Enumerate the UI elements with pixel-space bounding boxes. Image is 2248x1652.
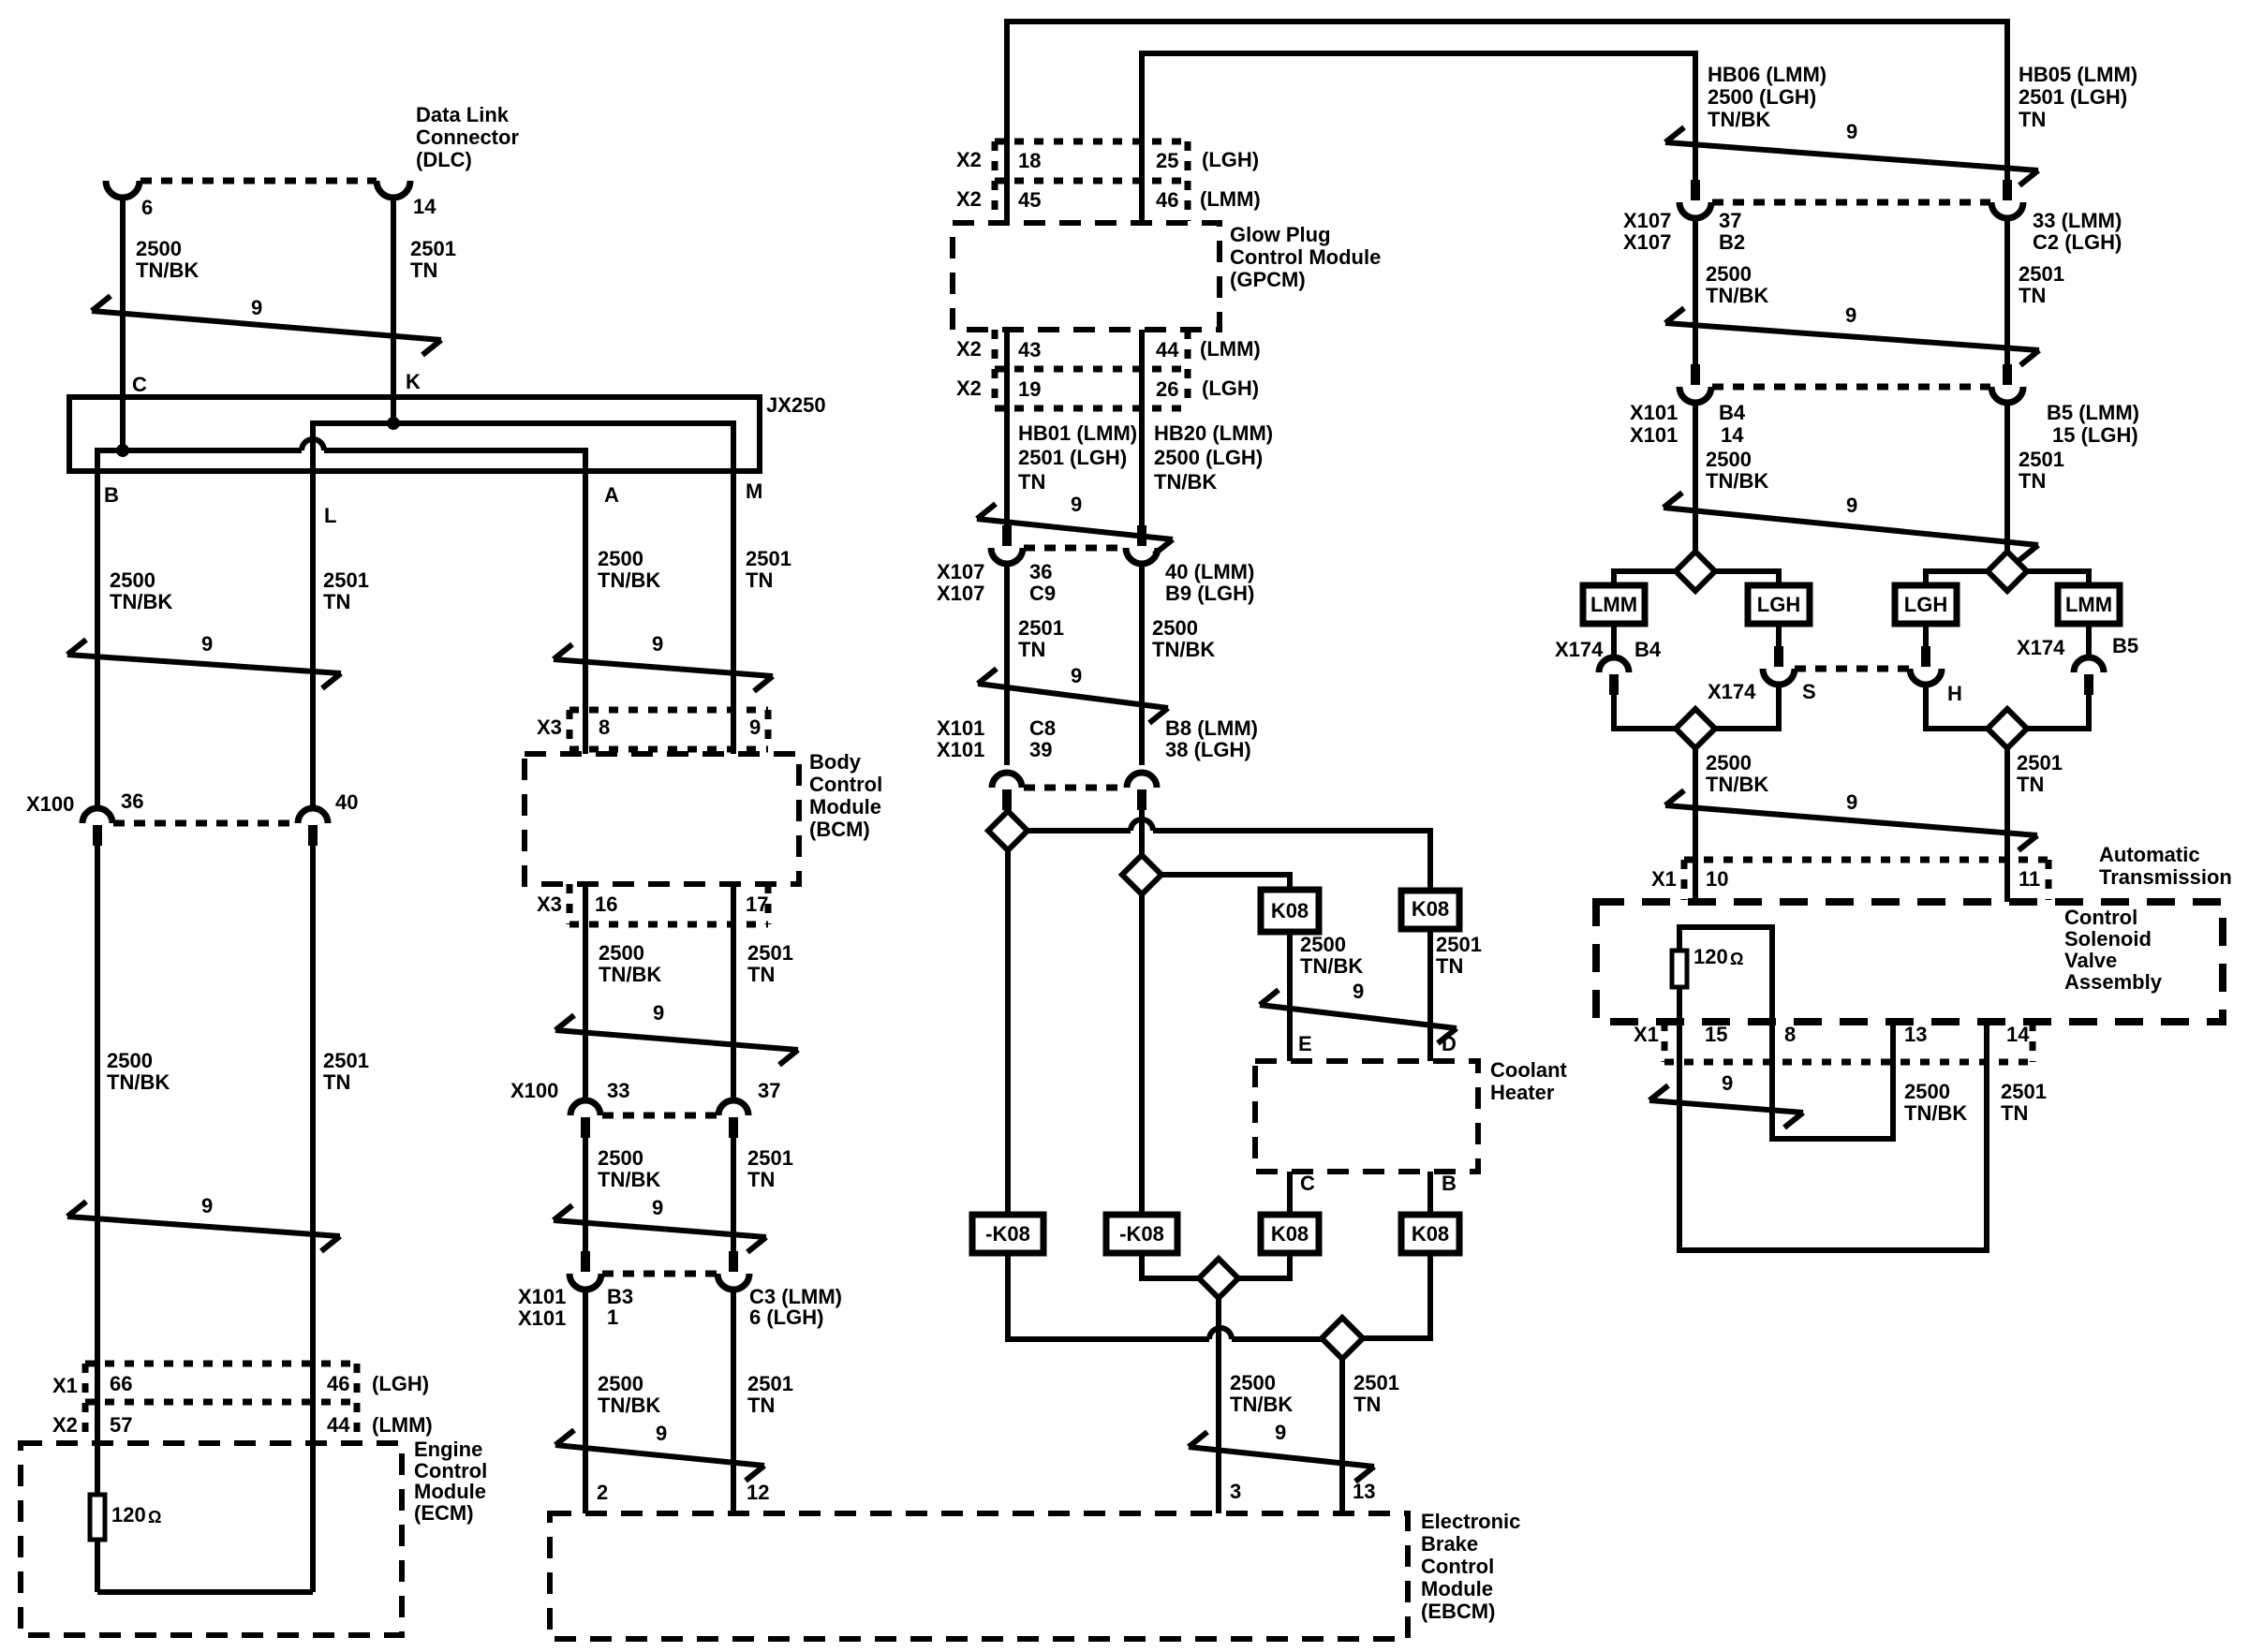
svg-text:2501: 2501: [410, 237, 456, 260]
svg-text:46: 46: [1156, 188, 1178, 212]
svg-text:36: 36: [1029, 560, 1052, 583]
svg-text:1: 1: [607, 1305, 618, 1329]
svg-text:TN: TN: [1353, 1393, 1381, 1416]
svg-text:Transmission: Transmission: [2099, 865, 2232, 889]
svg-text:13: 13: [1904, 1023, 1927, 1046]
svg-text:6 (LGH): 6 (LGH): [749, 1305, 823, 1329]
svg-text:X101: X101: [1630, 423, 1678, 447]
svg-text:HB01 (LMM): HB01 (LMM): [1018, 421, 1137, 445]
svg-text:(LMM): (LMM): [1200, 187, 1261, 211]
svg-text:LMM: LMM: [1590, 593, 1637, 616]
svg-text:9: 9: [1071, 664, 1082, 687]
svg-text:2500: 2500: [1706, 262, 1752, 286]
svg-text:B2: B2: [1719, 230, 1745, 254]
svg-text:HB20 (LMM): HB20 (LMM): [1154, 421, 1273, 445]
svg-text:TN/BK: TN/BK: [1706, 773, 1768, 796]
svg-text:9: 9: [1845, 303, 1856, 327]
svg-text:26: 26: [1156, 377, 1178, 401]
svg-text:S: S: [1802, 680, 1816, 703]
svg-text:TN: TN: [747, 963, 775, 986]
svg-text:TN: TN: [323, 1070, 350, 1094]
svg-text:Control Module: Control Module: [1230, 245, 1381, 269]
svg-text:-K08: -K08: [1119, 1222, 1164, 1246]
svg-text:14: 14: [1721, 423, 1744, 447]
svg-text:2500 (LGH): 2500 (LGH): [1708, 85, 1816, 109]
svg-text:2501: 2501: [2019, 262, 2064, 286]
svg-text:C: C: [1300, 1172, 1315, 1195]
svg-text:B4: B4: [1719, 401, 1746, 424]
svg-text:Body: Body: [809, 750, 862, 774]
svg-text:43: 43: [1018, 338, 1041, 361]
svg-text:K08: K08: [1271, 899, 1309, 922]
svg-text:TN/BK: TN/BK: [1230, 1393, 1293, 1416]
svg-text:C: C: [132, 373, 147, 396]
svg-text:TN/BK: TN/BK: [599, 963, 661, 986]
svg-text:2500: 2500: [1706, 751, 1752, 774]
svg-text:2500: 2500: [1152, 616, 1198, 640]
svg-text:X101: X101: [937, 738, 984, 761]
svg-text:2501 (LGH): 2501 (LGH): [1018, 446, 1127, 469]
svg-text:13: 13: [1353, 1480, 1375, 1503]
svg-text:12: 12: [747, 1481, 769, 1504]
svg-text:B4: B4: [1634, 638, 1662, 661]
svg-text:Brake: Brake: [1421, 1532, 1478, 1556]
svg-text:2501: 2501: [2017, 751, 2063, 774]
svg-text:TN/BK: TN/BK: [598, 1168, 660, 1191]
svg-text:-K08: -K08: [985, 1222, 1030, 1246]
svg-text:X1: X1: [1634, 1023, 1659, 1046]
svg-text:TN: TN: [323, 590, 350, 613]
svg-text:46: 46: [327, 1372, 349, 1395]
svg-text:2501: 2501: [747, 1146, 793, 1170]
svg-text:2501: 2501: [747, 1372, 793, 1395]
svg-text:15: 15: [1705, 1023, 1727, 1046]
svg-text:B: B: [1442, 1172, 1457, 1195]
svg-text:B5: B5: [2112, 634, 2138, 657]
svg-text:(ECM): (ECM): [414, 1501, 474, 1525]
svg-text:Control: Control: [1421, 1555, 1494, 1578]
svg-text:TN: TN: [1018, 638, 1045, 661]
svg-text:(BCM): (BCM): [809, 818, 870, 841]
svg-text:X2: X2: [956, 187, 982, 211]
svg-text:TN: TN: [747, 1168, 775, 1191]
svg-text:2500: 2500: [107, 1049, 153, 1072]
svg-text:X107: X107: [937, 560, 984, 583]
svg-text:X2: X2: [52, 1413, 78, 1437]
svg-text:(LGH): (LGH): [1202, 376, 1259, 400]
svg-text:TN/BK: TN/BK: [136, 258, 199, 282]
svg-text:33: 33: [607, 1079, 629, 1102]
svg-text:Connector: Connector: [416, 125, 519, 149]
svg-text:LGH: LGH: [1904, 593, 1947, 616]
svg-text:X2: X2: [956, 337, 982, 361]
svg-text:9: 9: [1722, 1071, 1733, 1095]
svg-text:9: 9: [1846, 494, 1857, 517]
svg-text:D: D: [1442, 1032, 1457, 1055]
svg-text:37: 37: [758, 1079, 780, 1102]
svg-text:Module: Module: [414, 1480, 486, 1503]
svg-text:LGH: LGH: [1757, 593, 1800, 616]
svg-text:TN/BK: TN/BK: [598, 1394, 660, 1417]
svg-text:B9 (LGH): B9 (LGH): [1165, 582, 1254, 605]
svg-text:9: 9: [1846, 790, 1857, 814]
svg-text:X100: X100: [26, 792, 74, 816]
svg-text:K08: K08: [1271, 1222, 1309, 1246]
svg-text:9: 9: [749, 715, 761, 739]
svg-text:K08: K08: [1412, 1222, 1449, 1246]
svg-text:X101: X101: [937, 716, 984, 740]
svg-text:9: 9: [1846, 120, 1857, 143]
svg-text:X107: X107: [937, 582, 984, 605]
svg-text:36: 36: [121, 789, 143, 813]
svg-text:L: L: [324, 504, 336, 527]
svg-text:TN/BK: TN/BK: [1154, 470, 1217, 494]
svg-text:44: 44: [327, 1413, 350, 1437]
svg-text:TN/BK: TN/BK: [1706, 469, 1768, 493]
svg-text:9: 9: [251, 296, 262, 319]
svg-text:Assembly: Assembly: [2064, 970, 2163, 994]
svg-text:9: 9: [1071, 493, 1082, 516]
svg-text:Engine: Engine: [414, 1438, 482, 1461]
svg-text:2501: 2501: [747, 941, 793, 965]
svg-text:Control: Control: [809, 773, 882, 796]
svg-text:40: 40: [335, 790, 358, 814]
svg-text:2500: 2500: [1230, 1371, 1276, 1394]
svg-text:8: 8: [599, 715, 610, 739]
svg-text:X1: X1: [1651, 867, 1677, 891]
svg-text:3: 3: [1230, 1480, 1241, 1503]
svg-text:2501: 2501: [1436, 933, 1482, 956]
svg-text:2500: 2500: [1706, 448, 1752, 471]
svg-text:HB05 (LMM): HB05 (LMM): [2019, 63, 2137, 86]
svg-text:Heater: Heater: [1490, 1081, 1555, 1104]
svg-text:Ω: Ω: [148, 1508, 161, 1527]
svg-text:X3: X3: [537, 715, 562, 739]
svg-text:TN: TN: [1436, 954, 1463, 978]
svg-text:JX250: JX250: [766, 393, 826, 417]
svg-text:M: M: [746, 479, 762, 503]
svg-text:C9: C9: [1029, 582, 1056, 605]
svg-text:120: 120: [1693, 945, 1728, 968]
svg-text:2: 2: [597, 1481, 608, 1504]
svg-text:X1: X1: [52, 1374, 78, 1397]
svg-text:2500: 2500: [1904, 1080, 1950, 1103]
svg-text:X101: X101: [518, 1306, 566, 1330]
svg-text:14: 14: [2006, 1023, 2030, 1046]
svg-text:2500: 2500: [598, 547, 643, 570]
svg-text:X100: X100: [510, 1079, 558, 1102]
svg-text:2501: 2501: [1353, 1371, 1399, 1394]
svg-text:2500 (LGH): 2500 (LGH): [1154, 446, 1263, 469]
svg-text:Coolant: Coolant: [1490, 1058, 1568, 1082]
svg-text:2501: 2501: [323, 568, 369, 592]
svg-text:TN: TN: [410, 258, 437, 282]
svg-text:(EBCM): (EBCM): [1421, 1600, 1495, 1623]
svg-text:Ω: Ω: [1730, 950, 1743, 968]
svg-text:X101: X101: [1630, 401, 1678, 424]
svg-text:Solenoid: Solenoid: [2064, 927, 2152, 951]
svg-text:2500: 2500: [1300, 933, 1346, 956]
svg-text:18: 18: [1018, 149, 1041, 172]
svg-text:57: 57: [110, 1413, 132, 1437]
svg-text:Data Link: Data Link: [416, 103, 510, 126]
svg-text:2501: 2501: [746, 547, 791, 570]
svg-text:44: 44: [1156, 338, 1179, 361]
svg-text:19: 19: [1018, 377, 1041, 401]
svg-text:10: 10: [1706, 867, 1728, 891]
svg-text:K: K: [406, 370, 421, 393]
svg-text:TN/BK: TN/BK: [107, 1070, 170, 1094]
svg-text:39: 39: [1029, 738, 1052, 761]
svg-text:Control: Control: [2064, 906, 2137, 929]
svg-text:(GPCM): (GPCM): [1230, 268, 1306, 291]
svg-text:Valve: Valve: [2064, 949, 2117, 972]
svg-text:TN: TN: [2001, 1101, 2028, 1125]
svg-text:Module: Module: [1421, 1577, 1493, 1600]
svg-text:K08: K08: [1412, 897, 1449, 921]
svg-text:2501: 2501: [2019, 448, 2064, 471]
svg-text:Automatic: Automatic: [2099, 843, 2200, 866]
svg-text:9: 9: [1353, 980, 1364, 1003]
svg-text:X174: X174: [1708, 680, 1756, 703]
svg-text:14: 14: [413, 195, 436, 218]
svg-text:38 (LGH): 38 (LGH): [1165, 738, 1251, 761]
svg-text:6: 6: [141, 196, 153, 219]
svg-text:TN/BK: TN/BK: [1152, 638, 1215, 661]
svg-text:C2 (LGH): C2 (LGH): [2033, 230, 2122, 254]
svg-text:9: 9: [201, 1194, 213, 1217]
svg-text:B8 (LMM): B8 (LMM): [1165, 716, 1258, 740]
svg-text:TN: TN: [747, 1394, 775, 1417]
svg-text:(DLC): (DLC): [416, 148, 472, 171]
svg-text:Electronic: Electronic: [1421, 1510, 1520, 1533]
svg-text:TN: TN: [2017, 773, 2044, 796]
svg-text:TN/BK: TN/BK: [1706, 284, 1768, 307]
svg-text:33 (LMM): 33 (LMM): [2033, 209, 2122, 232]
svg-text:45: 45: [1018, 188, 1041, 212]
svg-text:X107: X107: [1623, 209, 1671, 232]
svg-text:TN: TN: [2019, 284, 2046, 307]
svg-text:9: 9: [201, 632, 213, 656]
svg-text:2501: 2501: [323, 1049, 369, 1072]
svg-text:B: B: [104, 483, 119, 507]
svg-text:8: 8: [1784, 1023, 1796, 1046]
svg-text:Module: Module: [809, 795, 881, 819]
svg-text:HB06 (LMM): HB06 (LMM): [1708, 63, 1826, 86]
svg-text:9: 9: [652, 632, 663, 656]
svg-text:TN: TN: [746, 568, 773, 592]
svg-text:25: 25: [1156, 149, 1178, 172]
svg-text:A: A: [604, 483, 619, 507]
svg-text:2500: 2500: [110, 568, 155, 592]
svg-text:2500: 2500: [598, 1372, 643, 1395]
svg-text:TN/BK: TN/BK: [1904, 1101, 1967, 1125]
svg-text:Glow Plug: Glow Plug: [1230, 223, 1331, 246]
svg-text:X2: X2: [956, 148, 982, 171]
svg-text:2500: 2500: [136, 237, 182, 260]
svg-text:H: H: [1947, 682, 1962, 705]
svg-text:TN/BK: TN/BK: [1300, 954, 1363, 978]
svg-text:TN/BK: TN/BK: [598, 568, 660, 592]
svg-text:(LGH): (LGH): [1202, 148, 1259, 171]
svg-text:40 (LMM): 40 (LMM): [1165, 560, 1254, 583]
svg-text:9: 9: [1275, 1421, 1286, 1444]
svg-text:E: E: [1298, 1032, 1312, 1055]
svg-text:B5 (LMM): B5 (LMM): [2047, 401, 2139, 424]
svg-text:9: 9: [656, 1422, 667, 1445]
svg-text:TN/BK: TN/BK: [110, 590, 172, 613]
svg-text:2500: 2500: [598, 1146, 643, 1170]
svg-text:11: 11: [2019, 867, 2040, 891]
svg-text:2500: 2500: [599, 941, 644, 965]
svg-text:LMM: LMM: [2065, 593, 2112, 616]
svg-text:2501 (LGH): 2501 (LGH): [2019, 85, 2127, 109]
svg-text:2501: 2501: [1018, 616, 1064, 640]
svg-text:9: 9: [653, 1001, 664, 1025]
svg-text:TN: TN: [2019, 108, 2046, 131]
svg-text:9: 9: [652, 1196, 663, 1219]
svg-text:TN: TN: [1018, 470, 1045, 494]
svg-text:X107: X107: [1623, 230, 1671, 254]
svg-text:17: 17: [746, 892, 768, 916]
svg-text:15 (LGH): 15 (LGH): [2052, 423, 2138, 447]
svg-text:X3: X3: [537, 892, 562, 916]
svg-text:16: 16: [595, 892, 617, 916]
svg-text:2501: 2501: [2001, 1080, 2047, 1103]
svg-text:(LMM): (LMM): [372, 1413, 433, 1437]
svg-text:66: 66: [110, 1372, 132, 1395]
svg-text:X101: X101: [518, 1285, 566, 1308]
svg-text:(LGH): (LGH): [372, 1372, 429, 1395]
svg-text:X2: X2: [956, 376, 982, 400]
svg-text:120: 120: [111, 1503, 146, 1527]
svg-text:TN/BK: TN/BK: [1708, 108, 1770, 131]
svg-text:X174: X174: [2017, 636, 2065, 659]
svg-text:37: 37: [1719, 209, 1741, 232]
svg-text:(LMM): (LMM): [1200, 337, 1261, 361]
svg-text:TN: TN: [2019, 469, 2046, 493]
svg-text:C8: C8: [1029, 716, 1056, 740]
svg-text:X174: X174: [1555, 638, 1604, 661]
